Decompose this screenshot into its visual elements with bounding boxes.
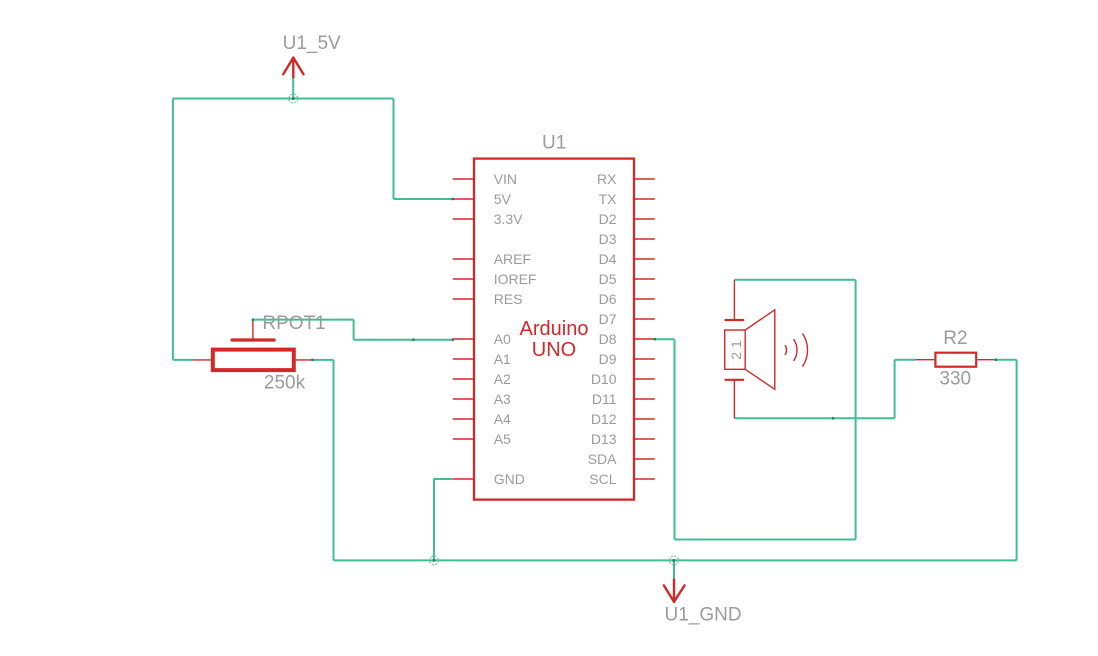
- wire up to speaker top: [855, 280, 857, 540]
- op-amp U1 left pins: [453, 179, 474, 479]
- wire GND pin down: [433, 479, 435, 560]
- svg-text:D5: D5: [599, 271, 617, 287]
- wire joint dots: [252, 97, 997, 561]
- resistor RPOT1 wiper bar: [232, 338, 274, 341]
- op-amp U1 right pins: [634, 179, 655, 479]
- svg-text:D11: D11: [592, 391, 617, 407]
- svg-text:RES: RES: [494, 291, 523, 307]
- wire GND pin horizontal: [434, 478, 453, 480]
- svg-text:GND: GND: [494, 471, 525, 487]
- svg-text:D4: D4: [599, 251, 617, 267]
- wire speaker top horizontal: [734, 279, 855, 281]
- svg-text:A5: A5: [494, 431, 511, 447]
- power symbol U1_5V arrow: [283, 58, 303, 78]
- svg-text:330: 330: [939, 369, 971, 390]
- svg-text:D3: D3: [599, 231, 617, 247]
- resistor R2 left lead: [915, 359, 934, 361]
- resistor RPOT1 left lead: [193, 359, 211, 361]
- speaker LS1 sound waves: [785, 334, 808, 367]
- wire R2 down to bus: [1016, 360, 1018, 561]
- svg-text:RPOT1: RPOT1: [262, 313, 325, 334]
- wire ground bus: [334, 559, 1017, 561]
- resistor R2 right lead: [977, 359, 994, 361]
- wire wiper horizontal: [253, 319, 354, 321]
- svg-text:D6: D6: [599, 291, 617, 307]
- wire power stub to node: [292, 78, 294, 99]
- wire to 5V pin: [394, 198, 453, 200]
- svg-text:A3: A3: [494, 391, 511, 407]
- svg-text:U1: U1: [542, 133, 566, 154]
- svg-text:D10: D10: [591, 371, 617, 387]
- op-amp U1 left pin labels: [494, 171, 537, 487]
- svg-text:A0: A0: [494, 331, 511, 347]
- wire D8 down: [674, 339, 676, 539]
- svg-text:D8: D8: [599, 331, 617, 347]
- svg-text:U1_GND: U1_GND: [665, 604, 742, 625]
- op-amp U1 value label: [520, 318, 589, 361]
- svg-text:250k: 250k: [264, 373, 306, 394]
- resistor R2 body: [935, 353, 976, 367]
- node U1_GND junction: [669, 556, 678, 565]
- wire ground stub: [673, 560, 675, 579]
- svg-text:U1_5V: U1_5V: [283, 33, 341, 54]
- speaker LS1 bottom lead: [733, 380, 735, 419]
- node 5V junction: [289, 94, 298, 103]
- wire up to R2 left: [894, 360, 896, 419]
- svg-text:D2: D2: [599, 211, 617, 227]
- ground symbol U1_GND arrow: [664, 580, 685, 602]
- node GND junction: [430, 556, 439, 565]
- svg-text:RX: RX: [597, 171, 617, 187]
- wire pot right: [313, 359, 333, 361]
- wire to A0 pin: [354, 339, 453, 341]
- wire R2 right lead: [994, 359, 1017, 361]
- wire to R2 left lead: [895, 359, 916, 361]
- op-amp U1 Arduino UNO body: [474, 159, 634, 500]
- svg-text:D7: D7: [599, 311, 617, 327]
- resistor RPOT1 right lead: [296, 359, 313, 361]
- speaker LS1 body: [725, 330, 746, 369]
- speaker LS1 horn: [745, 310, 775, 390]
- svg-text:5V: 5V: [494, 191, 512, 207]
- svg-text:IOREF: IOREF: [494, 271, 537, 287]
- svg-text:UNO: UNO: [532, 339, 576, 361]
- speaker LS1 top plate: [725, 319, 745, 321]
- speaker LS1 bottom plate: [725, 379, 745, 381]
- wire D8 horizontal: [655, 338, 675, 340]
- wire wiper vertical: [353, 320, 355, 340]
- svg-text:2 1: 2 1: [728, 340, 744, 360]
- svg-text:VIN: VIN: [494, 171, 517, 187]
- svg-text:A1: A1: [494, 351, 511, 367]
- svg-text:TX: TX: [599, 191, 618, 207]
- svg-text:A2: A2: [494, 371, 511, 387]
- svg-text:SCL: SCL: [589, 471, 616, 487]
- svg-text:D12: D12: [591, 411, 617, 427]
- op-amp U1 right pin labels: [588, 171, 617, 487]
- wire 5V left vertical: [172, 99, 174, 360]
- wire D8 bottom horizontal: [675, 539, 856, 541]
- resistor RPOT1 wiper lead: [252, 320, 254, 342]
- svg-text:A4: A4: [494, 411, 511, 427]
- speaker LS1 top lead: [733, 280, 735, 320]
- svg-text:D9: D9: [599, 351, 617, 367]
- svg-text:AREF: AREF: [494, 251, 531, 267]
- svg-text:3.3V: 3.3V: [494, 211, 523, 227]
- svg-text:Arduino: Arduino: [520, 318, 589, 340]
- wire pot down to bus: [333, 360, 335, 561]
- svg-text:R2: R2: [943, 328, 967, 349]
- svg-text:D13: D13: [591, 431, 617, 447]
- wire 5V right vertical: [393, 99, 395, 200]
- wire to pot left: [173, 359, 193, 361]
- wire speaker bottom horizontal: [734, 417, 894, 419]
- svg-text:SDA: SDA: [588, 451, 617, 467]
- wire 5V top horizontal: [173, 98, 394, 100]
- resistor RPOT1 body: [213, 350, 294, 371]
